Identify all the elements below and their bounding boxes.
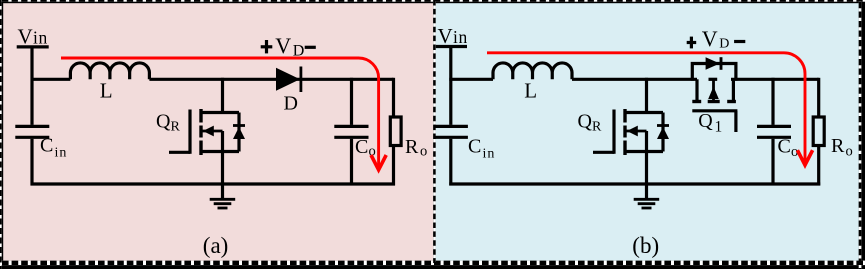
node Vin (a) label [18, 25, 49, 49]
capacitor Co (a) [334, 78, 368, 186]
transistor Q_R (b) gate bar [612, 110, 615, 154]
capacitor Cin (b) [434, 126, 468, 185]
transistor Q_R (a) gate bar [188, 110, 191, 154]
Vin terminal bar (a) [17, 45, 49, 48]
svg-text:R: R [171, 120, 181, 135]
transistor Q_R (a) drain bar [200, 111, 240, 114]
svg-text:in: in [483, 147, 496, 162]
svg-text:in: in [33, 28, 48, 48]
transistor Q1 (b) source stub [732, 79, 735, 101]
svg-text:Q: Q [698, 110, 713, 132]
red arrowhead (a) [371, 155, 386, 170]
svg-text:D: D [719, 37, 729, 52]
transistor Q1 (b) gate bar [692, 109, 737, 112]
wire source vertical (b) [645, 131, 648, 186]
svg-text:V: V [438, 24, 453, 48]
svg-text:V: V [275, 33, 291, 58]
transistor Q1 (b) gate lead [734, 111, 737, 132]
transistor Q1 (b) diode loop [692, 64, 736, 81]
inductor L (b) [493, 63, 572, 79]
wire source vertical (a) [221, 131, 224, 186]
svg-text:Q: Q [156, 111, 171, 133]
wire main top (b) right segment [731, 78, 819, 81]
svg-text:R: R [592, 120, 602, 135]
resistor Ro (a) [390, 78, 401, 186]
transistor Q_R (b) body arrow [625, 126, 647, 137]
capacitor Cin (a) [15, 126, 49, 137]
transistor Q1 (b) arrow stub [708, 79, 719, 101]
transistor Q_R (b) source bar [624, 150, 664, 153]
wire Vin vertical (a) [30, 47, 33, 125]
capacitor Co (b) [757, 78, 791, 186]
transistor Q_R (a) channel segments [199, 109, 202, 155]
svg-text:V: V [702, 26, 718, 51]
label +VD- (b) plus sign [687, 37, 697, 49]
resistor Ro (b) [813, 78, 824, 186]
wire main top (a) mid segment [149, 78, 393, 81]
label minus (b) [734, 40, 745, 43]
wire drain vertical (b) [645, 78, 648, 113]
transistor Q_R (b) drain bar [624, 111, 664, 114]
label Cin (a) [40, 135, 67, 161]
label Q1 (b) [698, 110, 722, 135]
transistor Q_R (b) channel segments [623, 109, 626, 155]
svg-text:L: L [524, 79, 537, 103]
svg-text:Q: Q [578, 111, 593, 133]
svg-text:in: in [55, 146, 68, 161]
svg-text:(a): (a) [203, 233, 229, 258]
svg-text:C: C [778, 136, 791, 158]
svg-text:in: in [453, 27, 468, 47]
svg-text:C: C [468, 136, 481, 158]
svg-text:L: L [100, 79, 113, 103]
transistor Q_R (a) body arrow [201, 126, 223, 137]
label Ro (a) [405, 136, 427, 160]
body diode of Q1 (b) [706, 57, 721, 70]
ground (a) [210, 184, 236, 208]
svg-text:R: R [405, 136, 419, 158]
label minus (a) [305, 46, 316, 49]
svg-text:o: o [420, 144, 427, 160]
svg-text:C: C [40, 135, 53, 157]
red arrowhead (b) [797, 150, 812, 165]
wire drain vertical (a) [221, 78, 224, 113]
svg-text:C: C [355, 136, 368, 158]
inductor L (a) [70, 63, 149, 79]
Vin terminal bar (b) [436, 45, 467, 48]
svg-text:V: V [18, 25, 33, 49]
body diode of Q_R (b) [657, 113, 669, 152]
svg-text:o: o [846, 144, 853, 160]
svg-text:D: D [284, 93, 298, 115]
label Ro (b) [831, 135, 853, 160]
wire main top (a) left segment [31, 78, 71, 81]
node Vin (b) label [438, 24, 469, 48]
label QR (b) [578, 111, 603, 135]
svg-text:1: 1 [715, 118, 723, 135]
transistor Q_R (b) gate lead [593, 151, 614, 154]
transistor Q_R (a) gate lead [169, 151, 190, 154]
wire bottom (b) [449, 182, 820, 185]
label Cin (b) [468, 136, 495, 162]
diode D (a) [276, 67, 301, 93]
wire Vin vertical (b) [449, 47, 452, 125]
label +VD- (a) plus sign [261, 40, 273, 53]
svg-text:(b): (b) [632, 233, 659, 258]
label Co (b) [778, 136, 799, 161]
wire main top (b) mid segment [572, 78, 697, 81]
body diode of Q_R (a) [233, 113, 245, 152]
wire Cin lower (a) [30, 139, 33, 186]
transistor Q_R (a) source bar [200, 150, 240, 153]
label VD (b) [702, 26, 730, 51]
ground (b) [634, 184, 660, 208]
svg-text:R: R [831, 135, 845, 157]
red current path (b) [487, 53, 805, 162]
label Co (a) [355, 136, 376, 160]
transistor Q1 (b) channel segments [692, 100, 736, 103]
red current path (a) [61, 58, 379, 167]
wire main top (b) left segment [449, 78, 493, 81]
label VD (a) [275, 33, 304, 60]
wire bottom (a) [31, 182, 396, 185]
transistor Q1 (b) drain stub [695, 79, 698, 101]
label QR (a) [156, 111, 181, 135]
